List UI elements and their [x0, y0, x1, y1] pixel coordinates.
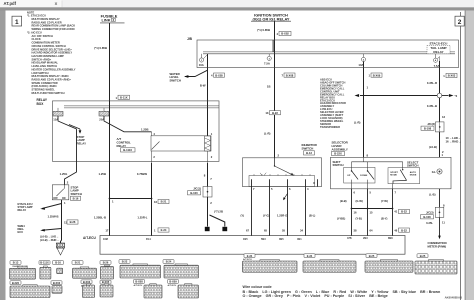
- svg-text:A/T-ECU: A/T-ECU: [168, 284, 177, 287]
- svg-text:AT.pdf: AT.pdf: [4, 1, 17, 6]
- svg-text:B-X09: B-X09: [169, 280, 177, 284]
- svg-text:B-X03: B-X03: [83, 280, 91, 284]
- svg-text:J/C(1): J/C(1): [193, 187, 201, 191]
- svg-text:B-W: B-W: [200, 84, 206, 88]
- svg-text:47B: 47B: [347, 237, 352, 240]
- svg-text:7: 7: [395, 191, 397, 195]
- svg-text:B-24: B-24: [166, 260, 172, 264]
- svg-text:B-16: B-16: [55, 261, 61, 265]
- svg-text:10A: 10A: [358, 63, 363, 67]
- svg-text:B-22: B-22: [272, 111, 278, 115]
- svg-text:B-X02: B-X02: [53, 281, 61, 285]
- svg-text:AK604885AB: AK604885AB: [445, 296, 462, 300]
- svg-text:J/B: J/B: [187, 37, 193, 41]
- svg-text:1.25W-B: 1.25W-B: [48, 215, 59, 219]
- svg-text:1: 1: [64, 201, 66, 205]
- svg-text:(B-L): (B-L): [309, 214, 315, 218]
- svg-text:2: 2: [67, 181, 69, 185]
- svg-text:7: 7: [282, 74, 284, 78]
- svg-text:B-X03: B-X03: [448, 74, 456, 78]
- svg-text:B-X09: B-X09: [373, 73, 381, 77]
- svg-text:*2: *2: [455, 94, 458, 98]
- svg-text:ON: ON: [62, 198, 66, 200]
- svg-text:B-111X: B-111X: [40, 261, 49, 265]
- svg-text:B-22: B-22: [122, 260, 128, 264]
- svg-text:1: 1: [211, 132, 213, 136]
- svg-text:A/T-ECU: A/T-ECU: [134, 284, 143, 287]
- svg-text:A/T-ECU: A/T-ECU: [243, 258, 252, 261]
- svg-text:(Y-BB): (Y-BB): [337, 217, 345, 221]
- svg-text:B-26: B-26: [70, 220, 76, 224]
- svg-text:1: 1: [369, 74, 371, 78]
- svg-text:O : Orange GR : Grey P :: O : Orange GR : Grey P : Pink V : Violet…: [243, 294, 388, 298]
- svg-text:SWITCH: SWITCH: [170, 78, 181, 82]
- svg-text:1: 1: [154, 229, 156, 233]
- svg-text:RELAY: RELAY: [18, 208, 27, 212]
- svg-text:2: 2: [211, 155, 213, 159]
- svg-text:(L0-B): (L0-B): [429, 145, 437, 149]
- svg-text:1.25BL-B: 1.25BL-B: [94, 215, 106, 219]
- svg-text:5: 5: [370, 191, 372, 195]
- svg-text:7.5A: 7.5A: [264, 61, 270, 65]
- svg-text:1: 1: [116, 96, 118, 100]
- svg-text:×: ×: [55, 1, 58, 7]
- svg-text:B-100: B-100: [190, 191, 198, 195]
- svg-text:B-26: B-26: [103, 261, 109, 265]
- svg-text:0.35L-R: 0.35L-R: [427, 81, 437, 85]
- svg-text:SWITCH: SWITCH: [407, 164, 418, 168]
- svg-text:B-22X: B-22X: [12, 281, 20, 285]
- svg-text:(L-R): (L-R): [354, 121, 361, 125]
- svg-text:SWITCH: SWITCH: [71, 192, 82, 196]
- svg-text:4: 4: [307, 187, 309, 191]
- svg-text:BOX: BOX: [37, 102, 45, 106]
- svg-text:1B: 1B: [267, 84, 271, 88]
- svg-text:MODE: MODE: [390, 175, 397, 177]
- svg-text:E-24: E-24: [307, 254, 313, 258]
- svg-text:E-24: E-24: [161, 228, 167, 232]
- svg-text:SWITCH: SWITCH: [333, 163, 344, 167]
- svg-text:Wire colour code: Wire colour code: [243, 285, 272, 289]
- svg-text:12: 12: [442, 115, 446, 119]
- svg-text:1.25R-L: 1.25R-L: [137, 215, 147, 219]
- svg-text:4N1: 4N1: [297, 238, 302, 241]
- svg-text:13: 13: [265, 111, 269, 115]
- svg-text:4: 4: [211, 74, 213, 78]
- svg-text:67: 67: [246, 229, 249, 233]
- svg-text:B-16: B-16: [73, 197, 79, 201]
- svg-text:16: 16: [154, 200, 157, 204]
- svg-text:8: 8: [204, 174, 206, 178]
- svg-text:UP: UP: [347, 175, 351, 177]
- svg-text:B-108: B-108: [423, 215, 431, 219]
- svg-text:(Y-B): (Y-B): [356, 217, 362, 221]
- svg-text:0.35L-B: 0.35L-B: [427, 104, 437, 108]
- svg-text:5N3: 5N3: [261, 238, 266, 241]
- svg-text:TRANSPONDER: TRANSPONDER: [320, 125, 340, 129]
- svg-text:1: 1: [443, 74, 445, 78]
- svg-text:ASSEMBLY: ASSEMBLY: [332, 147, 348, 151]
- svg-text:E-24: E-24: [247, 254, 253, 258]
- svg-text:(Y-W): (Y-W): [381, 199, 388, 203]
- svg-text:A/T-ECU: A/T-ECU: [83, 236, 96, 240]
- svg-text:(L-B): (L-B): [429, 193, 435, 197]
- svg-text:55: 55: [282, 229, 285, 233]
- svg-text:(B-Y): (B-Y): [381, 217, 388, 221]
- svg-text:B-25: B-25: [420, 254, 426, 258]
- svg-text:46: 46: [394, 228, 397, 232]
- svg-text:B-X08: B-X08: [286, 73, 294, 77]
- svg-text:8: 8: [313, 181, 315, 185]
- svg-text:41: 41: [394, 210, 397, 214]
- svg-text:(*1) 0.85B: (*1) 0.85B: [257, 28, 270, 32]
- svg-text:11: 11: [442, 221, 445, 225]
- svg-text:RELAY: RELAY: [433, 50, 444, 54]
- svg-text:7: 7: [253, 187, 255, 191]
- svg-text:(*1) 0.85B: (*1) 0.85B: [94, 46, 107, 50]
- svg-text:16: 16: [354, 211, 357, 215]
- svg-text:2: 2: [278, 154, 280, 158]
- svg-text:38: 38: [354, 229, 357, 233]
- svg-text:SWITCH: SWITCH: [302, 147, 314, 151]
- svg-text:(G-W): (G-W): [356, 199, 363, 203]
- svg-text:2: 2: [153, 155, 155, 159]
- svg-text:(Y): (Y): [241, 214, 245, 218]
- svg-text:(B-B): (B-B): [340, 199, 347, 203]
- svg-text:10A: 10A: [199, 63, 204, 67]
- svg-text:B-21: B-21: [161, 200, 167, 204]
- svg-text:64: 64: [370, 229, 373, 233]
- svg-text:ECU: ECU: [18, 230, 24, 234]
- svg-text:4: 4: [153, 132, 155, 136]
- svg-text:4: 4: [277, 32, 279, 36]
- svg-text:17: 17: [105, 229, 109, 233]
- svg-text:1.25R-G: 1.25R-G: [277, 214, 287, 218]
- svg-text:B-22: B-22: [401, 228, 407, 232]
- svg-text:2: 2: [458, 19, 462, 26]
- svg-text:6: 6: [289, 187, 291, 191]
- svg-text:1.25B: 1.25B: [99, 172, 106, 176]
- svg-text:METER (P/NM): METER (P/NM): [428, 244, 447, 248]
- svg-text:34: 34: [300, 229, 303, 233]
- svg-text:(*7) 2B: (*7) 2B: [214, 210, 223, 214]
- svg-text:ETACS-ECU: ETACS-ECU: [430, 42, 449, 46]
- svg-text:B-13: B-13: [13, 261, 19, 265]
- svg-text:B-X02: B-X02: [281, 32, 289, 36]
- svg-text:1.25B: 1.25B: [141, 127, 148, 131]
- svg-text:1: 1: [15, 19, 19, 26]
- svg-text:2: 2: [210, 201, 212, 205]
- svg-text:1: 1: [112, 200, 114, 204]
- svg-text:3N5: 3N5: [279, 238, 284, 241]
- svg-text:8N8: 8N8: [388, 237, 393, 240]
- svg-text:15: 15: [370, 211, 373, 215]
- svg-text:B-25: B-25: [369, 254, 375, 258]
- svg-text:B-111X: B-111X: [123, 148, 132, 152]
- svg-text:0.35L: 0.35L: [426, 221, 433, 225]
- svg-text:16 ←RHD→: 16 ←RHD→: [446, 139, 462, 143]
- svg-text:65: 65: [264, 229, 267, 233]
- svg-text:5: 5: [271, 187, 273, 191]
- svg-text:MULTI-FUNCTION SWITCH: MULTI-FUNCTION SWITCH: [32, 91, 65, 95]
- svg-text:J/C(3): J/C(3): [427, 122, 435, 126]
- svg-text:(L0-B) ←RHD→: (L0-B) ←RHD→: [40, 238, 59, 242]
- svg-text:B-13: B-13: [306, 151, 312, 155]
- svg-text:FG1: FG1: [146, 238, 151, 241]
- svg-text:8: 8: [367, 154, 369, 158]
- svg-text:B-21: B-21: [75, 261, 81, 265]
- svg-text:1.25G: 1.25G: [60, 172, 68, 176]
- svg-text:7.5A: 7.5A: [434, 64, 440, 68]
- svg-text:7: 7: [210, 177, 212, 181]
- svg-text:(L-R): (L-R): [264, 131, 271, 135]
- svg-text:(Y-G): (Y-G): [263, 214, 270, 218]
- svg-text:MODE: MODE: [410, 175, 417, 177]
- svg-text:2N3: 2N3: [363, 237, 368, 240]
- svg-text:1N5: 1N5: [243, 238, 248, 241]
- svg-text:(IG1) OR IG1 RELAY: (IG1) OR IG1 RELAY: [252, 16, 289, 21]
- svg-text:B-X08: B-X08: [135, 280, 143, 284]
- svg-text:B-11X: B-11X: [120, 96, 128, 100]
- svg-text:OFF: OFF: [53, 198, 58, 200]
- svg-text:B-22X: B-22X: [334, 152, 342, 156]
- svg-text:B-108: B-108: [424, 126, 432, 130]
- svg-text:16M: 16M: [103, 238, 108, 241]
- svg-text:J/C(3): J/C(3): [426, 211, 434, 215]
- svg-text:DOWN: DOWN: [360, 175, 367, 177]
- svg-text:1: 1: [367, 85, 369, 89]
- svg-text:RELAY: RELAY: [77, 141, 87, 145]
- svg-text:B-22: B-22: [401, 210, 407, 214]
- svg-text:8: 8: [443, 204, 445, 208]
- svg-text:0.75BW: 0.75BW: [137, 172, 147, 176]
- svg-text:LINK: LINK: [101, 18, 110, 23]
- svg-text:B-X05: B-X05: [215, 73, 223, 77]
- svg-text:6: 6: [354, 191, 356, 195]
- svg-text:ILL: ILL: [432, 170, 436, 174]
- svg-text:RELAY: RELAY: [117, 144, 127, 148]
